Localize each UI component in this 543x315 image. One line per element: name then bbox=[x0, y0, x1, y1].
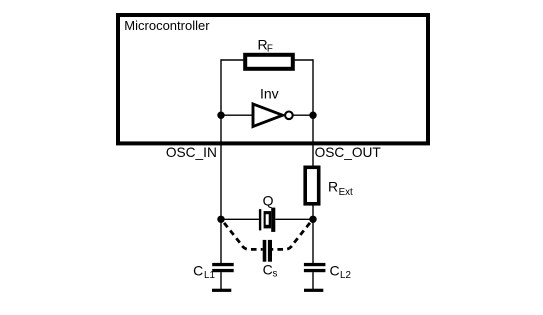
svg-text:C: C bbox=[193, 263, 203, 279]
svg-text:L2: L2 bbox=[340, 270, 351, 281]
svg-text:Q: Q bbox=[263, 193, 274, 209]
svg-text:Microcontroller: Microcontroller bbox=[124, 18, 210, 33]
svg-text:Inv: Inv bbox=[260, 86, 279, 102]
svg-text:F: F bbox=[267, 44, 273, 55]
svg-text:C: C bbox=[263, 261, 273, 277]
svg-text:L1: L1 bbox=[204, 270, 215, 281]
svg-text:OSC_OUT: OSC_OUT bbox=[315, 145, 382, 160]
svg-text:s: s bbox=[273, 269, 278, 280]
svg-text:C: C bbox=[330, 263, 340, 279]
svg-text:Ext: Ext bbox=[339, 187, 353, 198]
svg-text:R: R bbox=[328, 178, 338, 194]
svg-text:OSC_IN: OSC_IN bbox=[166, 145, 217, 160]
